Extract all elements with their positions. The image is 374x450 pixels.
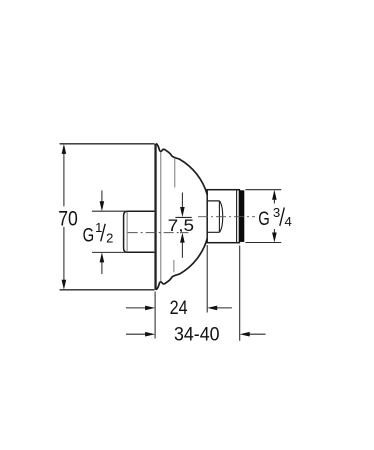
escutcheon rim (back plate) — [154, 144, 156, 290]
dim 34-40 arrow right — [126, 333, 150, 335]
inner nipple arc — [219, 201, 222, 232]
G3/4 dim extension line bottom — [245, 242, 281, 244]
svg-text:G: G — [83, 225, 95, 247]
G3/4 outlet body — [207, 190, 239, 243]
silhouette line B bottom — [173, 260, 175, 272]
dim 7,5 tick — [175, 216, 191, 218]
inner nipple end face — [218, 201, 220, 232]
dim 70 extension line bottom — [60, 289, 155, 291]
label G1/2: slash — [101, 224, 106, 242]
dim 24 arrow right — [126, 307, 150, 309]
G3/4 dim arrow up — [273, 196, 275, 204]
dim 24 extension line right — [206, 245, 208, 313]
G1/2 thread stub — [124, 211, 155, 252]
G3/4 dim extension line top — [245, 189, 281, 191]
dim 7,5 arrow up — [181, 240, 183, 258]
G1/2 stub chamfer line — [126, 212, 128, 252]
silhouette line A — [160, 152, 162, 282]
dim 24 arrow left — [212, 307, 232, 309]
svg-text:7,5: 7,5 — [168, 216, 194, 235]
svg-text:G: G — [258, 208, 270, 230]
G1/2 centerline — [128, 232, 189, 234]
dim 34-40 arrow left — [245, 333, 266, 335]
svg-text:2: 2 — [106, 230, 113, 245]
G1/2 dim extension line top — [92, 210, 126, 212]
gasket (black) — [239, 190, 244, 242]
silhouette line B top — [174, 158, 176, 188]
escutcheon dome bottom profile — [157, 239, 208, 290]
G1/2 dim extension line bottom — [92, 251, 126, 253]
G1/2 dim arrow up — [101, 259, 103, 274]
inner nipple — [207, 201, 219, 232]
dim 70 arrow down — [62, 280, 67, 290]
dim 70 line lower segment — [63, 227, 65, 287]
svg-text:1: 1 — [95, 220, 102, 235]
svg-text:24: 24 — [170, 298, 188, 319]
svg-text:70: 70 — [58, 207, 78, 230]
G3/4 dim arrow down — [273, 229, 275, 237]
G1/2 dim arrow down — [101, 191, 103, 206]
dim 70 line upper segment — [63, 147, 65, 206]
svg-text:34-40: 34-40 — [174, 324, 220, 345]
escutcheon dome top profile — [157, 144, 208, 195]
dim 34-40 extension line right — [239, 246, 241, 341]
dim 24 extension line left — [154, 292, 156, 339]
G3/4 centerline — [198, 216, 255, 218]
dim 70 arrow up — [62, 144, 67, 154]
svg-text:3: 3 — [273, 205, 280, 220]
G3/4 outlet step line — [236, 190, 238, 243]
dim 70 extension line top — [60, 143, 155, 145]
dim 7,5 arrow down — [181, 193, 183, 211]
label G3/4: slash — [280, 208, 285, 226]
svg-text:4: 4 — [285, 214, 292, 229]
